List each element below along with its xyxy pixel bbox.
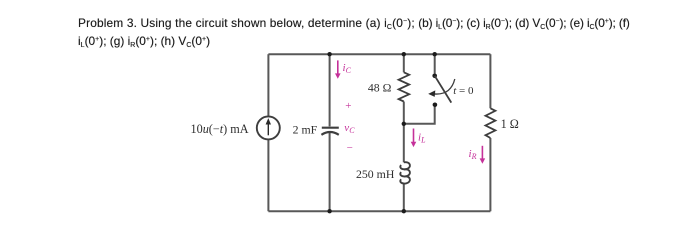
node bottom inductor junction — [402, 209, 406, 213]
node top 48-ohm junction — [402, 52, 406, 56]
svg-text:2 mF: 2 mF — [293, 122, 318, 136]
label iR — [469, 148, 477, 161]
svg-text:250 mH: 250 mH — [356, 167, 395, 181]
label 10u(-t) mA — [191, 122, 249, 136]
wire inductor branch lower — [403, 184, 405, 212]
svg-text:10u(−t) mA: 10u(−t) mA — [191, 122, 249, 136]
switch blade — [435, 76, 452, 103]
svg-text:−: − — [347, 142, 353, 154]
wire top — [268, 53, 490, 55]
wire inductor branch (junction A to coil) — [403, 124, 405, 163]
wire switch branch stub from top — [434, 54, 436, 73]
node top capacitor junction — [327, 52, 331, 56]
current arrow iL — [411, 129, 417, 148]
capacitor C1 2 mF — [321, 128, 338, 135]
current arrow iC — [335, 60, 341, 78]
wire right (bottom section below 1-ohm resistor) — [489, 138, 491, 211]
resistor R2 1 ohm — [486, 108, 496, 138]
wire capacitor branch lower — [329, 132, 331, 211]
label 1 ohm — [501, 117, 519, 131]
svg-text:iL: iL — [418, 132, 426, 145]
wire left (bottom section below current source) — [267, 139, 269, 211]
wire capacitor branch upper — [329, 54, 331, 126]
switch arrowhead — [428, 90, 435, 97]
inductor L1 250 mH — [400, 162, 410, 183]
switch upper terminal — [432, 74, 437, 79]
label 250 mH — [356, 167, 395, 181]
wire switch lower terminal to junction A — [404, 107, 435, 124]
wire bottom — [268, 210, 490, 212]
label iL — [418, 132, 426, 145]
node A (48-ohm / inductor / switch junction) — [402, 122, 406, 126]
wire 48-ohm branch middle (resistor to junction A) — [403, 102, 405, 124]
wire left (top section above current source) — [267, 54, 269, 116]
svg-text:iR: iR — [469, 148, 477, 161]
problem statement line 1 — [78, 16, 630, 30]
label 48 ohm — [368, 81, 392, 95]
svg-text:48 Ω: 48 Ω — [368, 81, 392, 95]
problem statement line 2 — [78, 34, 210, 48]
label iC — [343, 62, 352, 75]
svg-text:1 Ω: 1 Ω — [501, 117, 519, 131]
switch motion arc — [433, 79, 455, 94]
current source I1 10u(-t) mA — [257, 116, 280, 139]
svg-text:vC: vC — [344, 122, 355, 135]
label t = 0 — [453, 85, 474, 97]
svg-text:iC: iC — [343, 62, 352, 75]
wire right (top section above 1-ohm resistor) — [489, 54, 491, 108]
node top switch junction — [433, 52, 437, 56]
resistor R1 48 ohm — [399, 72, 410, 101]
wire 48-ohm branch upper — [403, 54, 405, 72]
switch SW1 (t=0) — [428, 74, 455, 108]
label vC — [344, 122, 355, 135]
current source arrow — [266, 118, 271, 135]
node bottom capacitor junction — [327, 209, 331, 213]
current arrow iR — [480, 146, 486, 164]
switch lower terminal — [433, 103, 438, 108]
svg-text:+: + — [345, 100, 351, 112]
label 2 mF — [293, 122, 318, 136]
svg-text:t = 0: t = 0 — [453, 85, 474, 97]
